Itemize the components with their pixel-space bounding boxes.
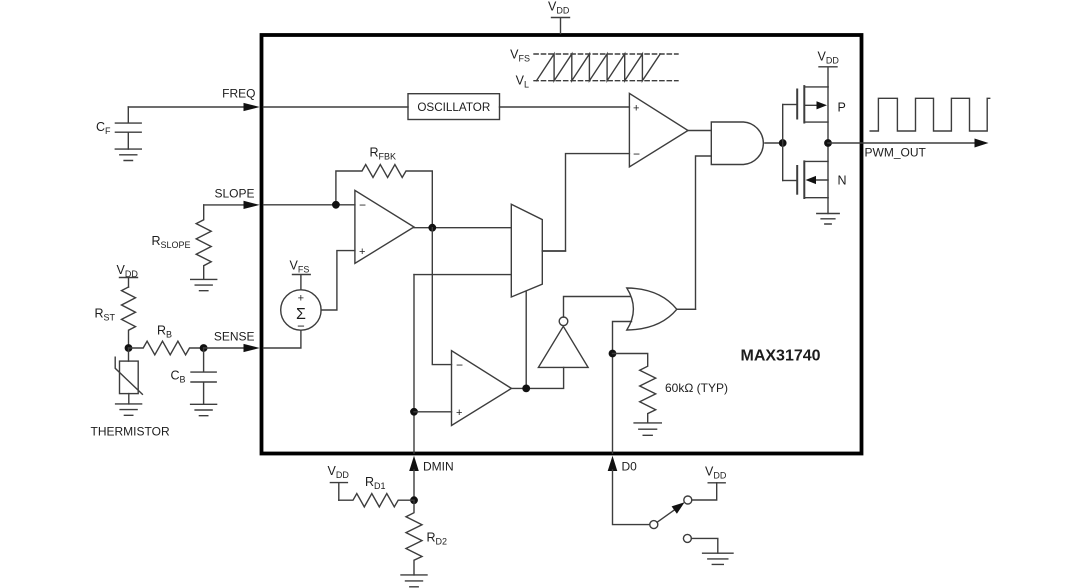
svg-text:60kΩ (TYP): 60kΩ (TYP): [665, 381, 728, 395]
inverter U6: [538, 317, 588, 367]
node thermistor junction: [125, 344, 133, 352]
wire VFS source to SENSE line: [264, 330, 301, 348]
svg-text:PWM_OUT: PWM_OUT: [865, 146, 927, 160]
power VDD (left input network): [117, 263, 139, 287]
ground (under NMOS): [817, 214, 839, 225]
svg-text:VDD: VDD: [328, 464, 350, 480]
wire mux select from U2: [525, 292, 527, 389]
ground (under switch): [703, 553, 733, 564]
power VDD (RD1): [328, 464, 350, 500]
wire VL dashed level: [534, 80, 678, 82]
svg-text:VDD: VDD: [548, 0, 570, 15]
wire inverter output to OR gate: [564, 297, 631, 318]
wire comparator output to AND: [688, 130, 711, 132]
resistor RB: [129, 324, 204, 355]
wire VFS dashed level: [534, 53, 678, 55]
node CB junction: [200, 344, 208, 352]
ground (under RSLOPE): [191, 279, 217, 290]
switch SW1 throw GND: [683, 534, 691, 542]
pin arrow PWM_OUT: [975, 139, 989, 148]
oscillator block: [408, 94, 500, 120]
svg-text:DMIN: DMIN: [423, 460, 454, 474]
wire U1 output to op-amp U2 inverting input: [432, 228, 451, 365]
ground (under CB): [191, 404, 217, 415]
wire DMIN internal: [413, 275, 415, 453]
AND gate U4: [711, 122, 763, 165]
multiplexer M1: [511, 204, 542, 297]
ground (under CF): [115, 149, 141, 160]
wire switch to VDD: [692, 483, 717, 500]
svg-text:P: P: [838, 101, 846, 115]
svg-text:D0: D0: [622, 460, 638, 474]
thermistor RT: [115, 348, 142, 404]
sawtooth oscillator waveform: [537, 54, 661, 81]
ground (under 60k resistor): [634, 423, 661, 435]
wire op-amp U1 output: [414, 227, 511, 229]
wire AND lower input from OR: [677, 156, 711, 309]
resistor RFBK: [336, 146, 432, 228]
svg-text:RST: RST: [94, 307, 115, 323]
svg-text:VFS: VFS: [290, 259, 310, 275]
capacitor CB: [171, 348, 217, 404]
OR gate U5: [627, 288, 677, 330]
comparator U3: [629, 93, 688, 166]
svg-text:−: −: [456, 358, 463, 372]
wire SLOPE input: [204, 204, 245, 206]
wire oscillator to comparator: [500, 106, 630, 108]
node DMIN junction: [410, 408, 418, 416]
wire NMOS source to ground: [827, 198, 829, 214]
svg-text:RD2: RD2: [427, 531, 448, 547]
power VDD (switch): [705, 465, 727, 483]
wire SENSE input: [204, 347, 245, 349]
resistor RST: [94, 287, 135, 348]
pin arrow SENSE: [244, 344, 260, 352]
svg-text:FREQ: FREQ: [222, 87, 255, 101]
wire PWM_OUT: [828, 142, 975, 144]
switch SW1 throw VDD: [684, 496, 692, 504]
wire SLOPE to op-amp U1: [264, 204, 355, 206]
svg-text:SENSE: SENSE: [214, 330, 255, 344]
wire mux lower input from DMIN: [414, 274, 511, 276]
resistor RD1: [339, 475, 414, 507]
svg-text:N: N: [838, 174, 847, 188]
wire switch throw to ground: [691, 538, 717, 553]
wire mux output: [542, 250, 565, 252]
PWM square waveform: [870, 98, 990, 131]
svg-text:RB: RB: [157, 324, 172, 340]
resistor RD2: [406, 500, 447, 575]
wire D0 external: [613, 470, 650, 525]
switch SW1 pole: [650, 521, 658, 529]
svg-text:RD1: RD1: [365, 475, 386, 491]
svg-text:+: +: [633, 103, 639, 115]
svg-text:MAX31740: MAX31740: [741, 348, 821, 365]
wire VFS source to op-amp U1 non-inverting input: [321, 251, 355, 310]
svg-text:VL: VL: [516, 74, 529, 90]
node U2 output junction: [522, 385, 530, 393]
svg-text:VFS: VFS: [510, 48, 530, 64]
node RD1/RD2 junction: [410, 496, 418, 504]
svg-text:−: −: [633, 147, 640, 161]
pin arrow SLOPE: [244, 201, 260, 209]
svg-text:VDD: VDD: [818, 50, 840, 66]
wire DMIN to op-amp U2 non-inverting input: [414, 411, 452, 413]
resistor 60k pullup: [613, 354, 728, 423]
svg-text:SLOPE: SLOPE: [214, 187, 254, 201]
transistor P (PMOS): [783, 86, 828, 143]
ground (under thermistor): [116, 404, 142, 415]
op-amp U2 (DMIN comparator): [452, 351, 512, 426]
wire FREQ input: [128, 106, 244, 108]
ground (under RD2): [401, 575, 427, 587]
svg-text:RSLOPE: RSLOPE: [151, 234, 190, 250]
pin arrow D0: [608, 456, 618, 471]
node gate drive junction: [779, 139, 787, 147]
power VDD (output stage): [818, 50, 840, 87]
svg-text:VDD: VDD: [117, 263, 139, 279]
pin arrow FREQ: [244, 103, 260, 111]
voltage source VFS (sigma summer): [281, 259, 321, 334]
wire FREQ to oscillator: [264, 106, 409, 108]
pin arrow DMIN: [409, 456, 419, 471]
wire OR output: [677, 308, 696, 310]
svg-text:THERMISTOR: THERMISTOR: [91, 425, 170, 439]
svg-text:OSCILLATOR: OSCILLATOR: [417, 101, 490, 114]
svg-text:VDD: VDD: [705, 465, 727, 481]
svg-text:+: +: [456, 407, 462, 419]
node op-amp U1 output junction: [428, 224, 436, 232]
wire comparator inverting input from mux: [542, 154, 629, 251]
wire DMIN external: [413, 470, 415, 500]
svg-text:CF: CF: [96, 120, 111, 136]
node slope junction: [332, 201, 340, 209]
transistor N (NMOS): [783, 143, 828, 198]
wire op-amp U2 output to inverter: [511, 367, 563, 388]
op-amp U1 (slope amplifier): [355, 190, 414, 263]
power VDD (top): [548, 0, 570, 34]
svg-text:CB: CB: [171, 369, 186, 385]
svg-text:RFBK: RFBK: [370, 146, 397, 162]
node D0 junction: [609, 350, 617, 358]
IC boundary box MAX31740: [262, 35, 862, 454]
wire AND output: [765, 142, 783, 144]
resistor RSLOPE: [151, 205, 211, 279]
node PWM output junction: [824, 139, 832, 147]
capacitor CF: [96, 107, 141, 149]
svg-text:+: +: [359, 246, 365, 258]
wire gate bus: [782, 105, 784, 181]
wire OR lower input from D0: [613, 322, 632, 454]
svg-text:+: +: [298, 293, 304, 305]
svg-text:−: −: [359, 198, 366, 212]
switch SW1 arm: [657, 510, 674, 522]
